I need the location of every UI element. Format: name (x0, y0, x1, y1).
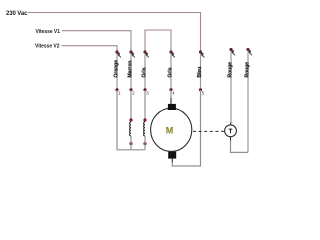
node coil L2 bottom (143, 142, 146, 145)
svg-text:Vitesse V2: Vitesse V2 (35, 43, 60, 49)
svg-text:M: M (166, 126, 174, 136)
svg-text:Rouge: Rouge (227, 62, 233, 78)
connector terminal Gris 1 (143, 50, 149, 89)
node coil L1 bottom (129, 142, 132, 145)
wire Vitesse V2 (62, 46, 118, 51)
wire coil L2 to bus (144, 136, 146, 150)
connector terminal Rouge 1 (229, 48, 235, 125)
node terminal 3 (143, 88, 149, 95)
svg-text:Bleu: Bleu (197, 67, 203, 78)
wire bridge Gris-Gris (145, 30, 171, 51)
svg-text:Vitesse V1: Vitesse V1 (36, 29, 61, 35)
dashed link motor to thermal switch (193, 130, 224, 132)
wire terminal3 down (144, 90, 146, 120)
node coil L2 top (143, 118, 146, 121)
wire bottom brush to Bleu (171, 158, 173, 162)
wire terminal1 to bottom bus (117, 90, 145, 150)
inductor L2 (144, 122, 145, 136)
motor M1 bottom brush (168, 152, 176, 159)
wire terminal4 to motor top brush (170, 90, 172, 99)
connector terminal Rouge 2 (246, 48, 252, 152)
node coil L1 top (129, 118, 132, 121)
wire Vitesse V1 (62, 31, 131, 51)
svg-text:Orange: Orange (113, 60, 119, 78)
node terminal 1 (115, 88, 121, 95)
svg-text:Rouge: Rouge (244, 62, 250, 78)
connector terminal Orange (115, 50, 121, 89)
node terminal 2 (129, 88, 135, 95)
wire thermal switch loop to Rouge 2 (230, 137, 232, 141)
svg-text:Marron: Marron (127, 61, 133, 78)
node terminal 4 (169, 88, 175, 95)
wire terminal2 down (130, 90, 132, 120)
node terminal 5 (199, 88, 205, 95)
connector terminal Gris 2 (169, 50, 175, 89)
thermal switch T1 (225, 125, 237, 137)
svg-text:Gris: Gris (141, 67, 147, 77)
svg-text:Gris: Gris (167, 67, 173, 77)
wire 230 Vac phase (28, 13, 201, 51)
motor M1 top brush (168, 104, 176, 110)
connector terminal Marron (129, 50, 135, 89)
wire coil L1 to bus (130, 136, 132, 150)
svg-text:230 Vac: 230 Vac (6, 11, 28, 17)
connector terminal Bleu (199, 50, 205, 89)
motor M1 body (151, 108, 192, 151)
inductor L1 (130, 122, 131, 136)
